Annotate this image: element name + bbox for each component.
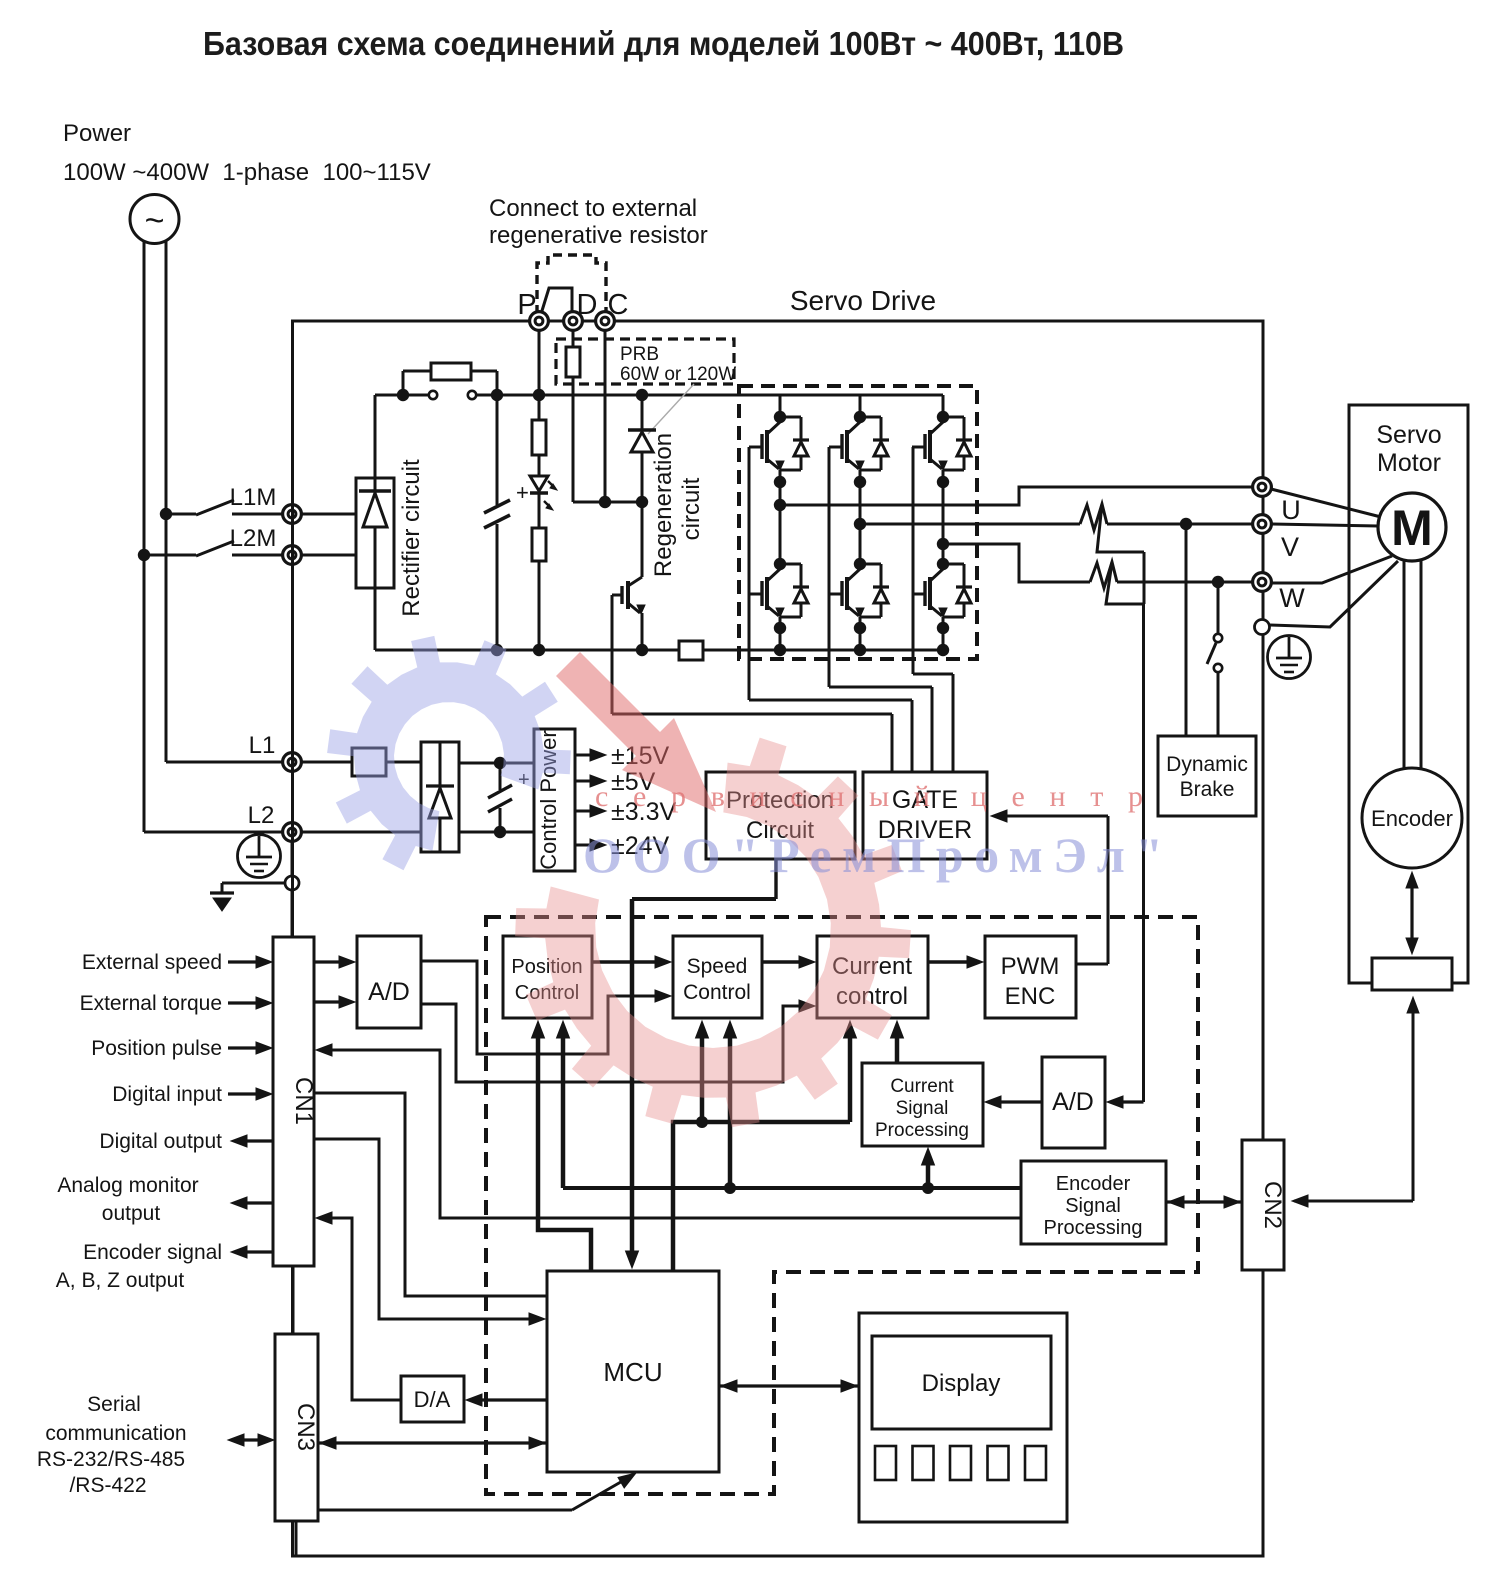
wire ground terminal to CN1 xyxy=(291,890,294,937)
wire bridge column 1 top stub xyxy=(779,395,782,417)
output +-24V xyxy=(575,844,592,847)
svg-text:CN1: CN1 xyxy=(290,1077,317,1125)
wire feedback to csp xyxy=(926,1160,931,1188)
control section dashed boundary xyxy=(486,917,1198,1494)
wire L1 to fuse xyxy=(301,761,352,764)
wire csp to current control xyxy=(895,1034,900,1063)
svg-text:Serial: Serial xyxy=(87,1393,141,1416)
motor shaft xyxy=(1403,561,1406,768)
regen transistor xyxy=(626,581,630,609)
protective earth symbol right xyxy=(1268,636,1311,679)
node feedback csp xyxy=(922,1182,934,1194)
terminal L2M xyxy=(283,546,302,565)
node speed command xyxy=(696,1116,708,1128)
svg-text:A, B, Z output: A, B, Z output xyxy=(56,1269,185,1292)
wire protection to mcu xyxy=(774,859,777,899)
svg-text:L2: L2 xyxy=(248,802,275,829)
svg-text:Regeneration: Regeneration xyxy=(650,433,677,577)
wire AD out to speed control xyxy=(421,961,657,1054)
wire DA to CN1 xyxy=(316,1212,332,1224)
connector CN2 xyxy=(1242,1140,1284,1270)
wire phase rail 1 xyxy=(779,482,782,564)
resistor PRB xyxy=(566,347,580,377)
current control box xyxy=(817,936,928,1018)
svg-text:Dynamic: Dynamic xyxy=(1166,753,1248,776)
wire feedback to speed control xyxy=(728,1034,733,1188)
svg-text:CN2: CN2 xyxy=(1259,1181,1286,1229)
node bus P xyxy=(533,389,545,401)
encoder circle xyxy=(1362,768,1462,868)
wire mcu to position control xyxy=(538,1034,591,1271)
svg-text:L1M: L1M xyxy=(230,484,277,511)
gate wire column 1 xyxy=(748,447,751,700)
current sense wire xyxy=(1143,552,1146,604)
wire rectifier bottom to bus xyxy=(374,588,377,650)
wire CN1 to AD 2 xyxy=(314,1000,342,1003)
node phase tap 2 xyxy=(854,518,866,530)
svg-text:Servo: Servo xyxy=(1376,421,1441,449)
wire P to bus xyxy=(538,330,541,395)
svg-text:L2M: L2M xyxy=(230,525,277,552)
fuse xyxy=(352,748,386,776)
wire CN1 to MCU upper xyxy=(314,1093,547,1296)
wire cn1 to cn3 xyxy=(292,1266,295,1334)
regen gate wire xyxy=(611,595,614,714)
display key 5 xyxy=(1025,1446,1046,1480)
node phase tap 1 xyxy=(774,499,786,511)
PRB leader line xyxy=(648,384,694,434)
svg-text:A/D: A/D xyxy=(1052,1088,1094,1116)
svg-text:Encoder: Encoder xyxy=(1371,806,1453,831)
svg-text:Current: Current xyxy=(890,1076,954,1097)
servo drive enclosure xyxy=(293,321,1264,1556)
wire D down xyxy=(572,330,575,347)
wire U phase xyxy=(780,487,1253,505)
capacitor main xyxy=(496,395,499,505)
terminal U xyxy=(1253,478,1272,497)
arrow cn3 mcu xyxy=(318,1441,547,1444)
noise filter W xyxy=(1090,562,1117,588)
svg-text:Signal: Signal xyxy=(896,1098,949,1119)
protective earth symbol left xyxy=(238,835,281,878)
node bus a xyxy=(397,389,409,401)
wire mcu command bus xyxy=(673,1122,850,1271)
svg-text:Speed: Speed xyxy=(687,955,748,978)
wire feedback to position control xyxy=(561,1034,566,1188)
wire esp to cn2 xyxy=(1166,1200,1242,1203)
wire W phase xyxy=(943,544,1090,582)
wire bridge column 2 top stub xyxy=(859,395,862,417)
speed control box xyxy=(673,936,762,1018)
external resistor dashed box xyxy=(537,255,606,314)
wire pwm to gate driver xyxy=(995,815,1108,818)
wire U to motor xyxy=(1271,489,1381,517)
AC source xyxy=(130,195,179,244)
svg-text:Processing: Processing xyxy=(1044,1217,1143,1239)
pwm enc box xyxy=(985,936,1076,1018)
node bus cap xyxy=(491,644,503,656)
node bus regen emitter xyxy=(636,644,648,656)
switch L2M xyxy=(144,554,196,557)
svg-text:PRB: PRB xyxy=(620,344,659,365)
svg-text:regenerative resistor: regenerative resistor xyxy=(489,222,708,249)
output +-5V xyxy=(575,780,592,783)
terminal P xyxy=(530,312,549,331)
shunt resistor xyxy=(679,641,703,660)
svg-text:Control: Control xyxy=(683,981,751,1004)
output +-3.3V xyxy=(575,810,592,813)
wire V phase xyxy=(860,523,1080,526)
IGBT upper 1 with diode xyxy=(779,417,782,422)
switch L1M xyxy=(166,513,196,516)
position control box xyxy=(503,936,592,1018)
control capacitor xyxy=(499,763,502,790)
svg-text:Position pulse: Position pulse xyxy=(91,1037,222,1060)
current signal processing box xyxy=(862,1063,983,1146)
noise filter V xyxy=(1080,504,1107,530)
display key 1 xyxy=(875,1446,896,1480)
terminal ground xyxy=(1255,620,1270,635)
wire MCU to CN1 digital out xyxy=(314,1139,531,1319)
soft start contact left xyxy=(429,391,437,399)
brake switch xyxy=(1214,634,1222,642)
svg-text:External torque: External torque xyxy=(80,992,222,1015)
svg-text:Connect to external: Connect to external xyxy=(489,195,697,222)
protection circuit box xyxy=(706,772,855,859)
dc bus bottom xyxy=(375,649,679,652)
wire rectifier top to bus xyxy=(374,395,377,478)
arrow sense to AD xyxy=(1119,1100,1144,1103)
jumper wire P-D xyxy=(541,288,572,314)
soft start contact right xyxy=(468,391,476,399)
svg-text:RS-232/RS-485: RS-232/RS-485 xyxy=(37,1448,185,1471)
svg-text:60W or 120W: 60W or 120W xyxy=(620,364,736,385)
arrow speed to current xyxy=(762,960,802,963)
svg-text:Signal: Signal xyxy=(1065,1195,1121,1217)
node feedback speed xyxy=(724,1182,736,1194)
encoder signal processing box xyxy=(1021,1161,1166,1244)
wire power left xyxy=(143,242,146,832)
control power box xyxy=(534,729,575,871)
wire L1M to rectifier xyxy=(301,513,356,516)
svg-text:Power: Power xyxy=(63,120,131,147)
svg-text:Базовая схема соединений для м: Базовая схема соединений для моделей 100… xyxy=(203,25,1124,62)
node W branch xyxy=(1212,576,1224,588)
wire ESP to CN1 xyxy=(316,1044,332,1056)
IGBT lower 1 with diode xyxy=(779,564,782,569)
svg-text:V: V xyxy=(1281,532,1299,562)
wire AD out to current control xyxy=(421,1004,802,1082)
bleeder LED xyxy=(538,455,541,476)
display key 3 xyxy=(950,1446,971,1480)
svg-text:ENC: ENC xyxy=(1005,983,1056,1010)
arrow AD to csp xyxy=(997,1100,1042,1103)
wire command to speed control xyxy=(700,1034,705,1122)
wire V to motor xyxy=(1272,524,1378,526)
arrow position to speed xyxy=(592,960,657,963)
svg-text:communication: communication xyxy=(45,1422,186,1445)
bleeder resistor 2 xyxy=(538,493,541,528)
wire L2 xyxy=(144,831,283,834)
bleeder resistor 1 xyxy=(538,395,541,420)
terminal L1M xyxy=(283,505,302,524)
arrow mcu to da xyxy=(480,1398,547,1401)
wire control dc minus xyxy=(459,831,534,834)
wire W to motor xyxy=(1271,556,1392,583)
wire L2 to ground terminal xyxy=(291,841,294,876)
arrow current to pwm xyxy=(928,960,969,963)
wire control dc plus xyxy=(459,762,534,765)
svg-text:output: output xyxy=(102,1202,161,1225)
servo motor box xyxy=(1349,405,1468,983)
node bus b xyxy=(491,389,503,401)
wire L2 to control rectifier xyxy=(301,831,421,834)
svg-text:Digital output: Digital output xyxy=(99,1130,222,1153)
rectifier diode xyxy=(374,478,377,491)
wire phase rail 3 xyxy=(942,482,945,564)
AD box left xyxy=(357,936,421,1028)
ground symbol xyxy=(222,882,285,885)
serial arrow xyxy=(240,1438,262,1441)
svg-text:/RS-422: /RS-422 xyxy=(69,1474,146,1497)
node V branch xyxy=(1180,518,1192,530)
node bus regen xyxy=(636,389,648,401)
svg-text:U: U xyxy=(1281,495,1301,525)
watermark xyxy=(327,636,571,870)
svg-text:D/A: D/A xyxy=(414,1387,451,1412)
IGBT module dashed box xyxy=(739,386,977,659)
svg-text:Encoder signal: Encoder signal xyxy=(83,1241,222,1264)
wire power right xyxy=(165,240,168,762)
wire emitter 3 to bus xyxy=(942,628,945,650)
wire emitter 2 to bus xyxy=(859,628,862,650)
regen diode xyxy=(628,428,656,431)
svg-text:с е р в и с н ы й ц е н т р: с е р в и с н ы й ц е н т р xyxy=(595,780,1143,813)
svg-text:CN3: CN3 xyxy=(292,1403,319,1451)
wire CN1 to AD 1 xyxy=(314,960,342,963)
node L1 feed xyxy=(160,508,172,520)
wire cn3 to case xyxy=(295,1521,298,1556)
svg-text:W: W xyxy=(1279,583,1305,613)
gate wire column 2 xyxy=(828,447,831,687)
svg-text:Processing: Processing xyxy=(875,1120,969,1141)
wire bridge column 3 top stub xyxy=(942,395,945,417)
terminal L1 xyxy=(283,753,302,772)
wire cn3 to mcu bottom xyxy=(318,1509,572,1512)
IGBT upper 3 with diode xyxy=(942,417,945,422)
dc bus top xyxy=(375,394,429,397)
wire V to dynamic brake xyxy=(1185,524,1188,736)
svg-text:ООО"РемПромЭл": ООО"РемПромЭл" xyxy=(583,827,1163,883)
MCU box xyxy=(547,1271,719,1472)
svg-text:PWM: PWM xyxy=(1001,953,1060,980)
arrow mcu display xyxy=(719,1384,859,1387)
IGBT upper 2 with diode xyxy=(859,417,862,422)
svg-text:MCU: MCU xyxy=(603,1357,662,1387)
node bus bleeder xyxy=(533,644,545,656)
svg-text:Motor: Motor xyxy=(1377,449,1441,477)
display key 2 xyxy=(913,1446,934,1480)
display key 4 xyxy=(988,1446,1009,1480)
display box xyxy=(859,1313,1067,1522)
node C join xyxy=(599,496,611,508)
terminal L2 xyxy=(283,823,302,842)
terminal W xyxy=(1253,573,1272,592)
svg-text:Servo Drive: Servo Drive xyxy=(790,285,936,316)
DA box xyxy=(401,1376,464,1422)
wire ground to motor xyxy=(1269,561,1398,627)
control rectifier box xyxy=(421,742,459,852)
wire command to current control xyxy=(848,1034,853,1122)
wire regen top xyxy=(641,395,644,430)
motor circle xyxy=(1378,493,1446,561)
node phase tap 3 xyxy=(937,538,949,550)
svg-text:Brake: Brake xyxy=(1180,778,1235,801)
gate wire column 3 xyxy=(912,447,915,674)
AD box right xyxy=(1042,1057,1105,1148)
svg-text:L1: L1 xyxy=(249,732,276,759)
wire regen to igbt xyxy=(641,502,644,577)
gate driver box xyxy=(863,772,987,859)
svg-text:External speed: External speed xyxy=(82,951,222,974)
rectifier circuit box xyxy=(356,478,394,588)
encoder feedback bus xyxy=(563,1186,1021,1190)
wire D-C join xyxy=(573,501,642,504)
svg-text:Digital input: Digital input xyxy=(112,1083,222,1106)
svg-text:Analog monitor: Analog monitor xyxy=(57,1174,198,1197)
svg-text:+: + xyxy=(516,480,529,505)
svg-text:100W ~400W 1-phase 100~115V: 100W ~400W 1-phase 100~115V xyxy=(63,159,431,186)
wire emitter 1 to bus xyxy=(779,628,782,650)
svg-text:Display: Display xyxy=(922,1370,1001,1397)
encoder cable xyxy=(1412,1000,1415,1201)
terminal D xyxy=(564,312,583,331)
wire C down xyxy=(604,330,607,502)
control rectifier diode xyxy=(439,742,442,786)
svg-text:~: ~ xyxy=(145,202,165,240)
wire L2M to rectifier xyxy=(301,554,356,557)
IGBT lower 2 with diode xyxy=(859,564,862,569)
terminal V xyxy=(1253,515,1272,534)
PRB dashed box xyxy=(556,339,734,384)
encoder to connector arrow xyxy=(1410,878,1413,950)
connector CN3 xyxy=(275,1334,318,1521)
svg-text:circuit: circuit xyxy=(678,477,705,540)
terminal C xyxy=(596,312,615,331)
wire W to brake switch xyxy=(1217,582,1220,633)
IGBT lower 3 with diode xyxy=(942,564,945,569)
motor connector box xyxy=(1372,958,1452,990)
svg-text:Rectifier circuit: Rectifier circuit xyxy=(398,459,425,617)
dynamic brake box xyxy=(1158,736,1256,816)
output +-15V xyxy=(575,754,592,757)
wire phase rail 2 xyxy=(859,482,862,564)
svg-text:Encoder: Encoder xyxy=(1056,1173,1131,1195)
node L2 feed xyxy=(138,549,150,561)
connector CN1 xyxy=(273,937,314,1266)
soft start resistor xyxy=(402,371,405,395)
svg-text:M: M xyxy=(1391,500,1433,556)
ground terminal open xyxy=(285,876,299,890)
svg-text:A/D: A/D xyxy=(368,978,410,1006)
node regen join xyxy=(636,496,648,508)
wire L1 xyxy=(166,761,283,764)
